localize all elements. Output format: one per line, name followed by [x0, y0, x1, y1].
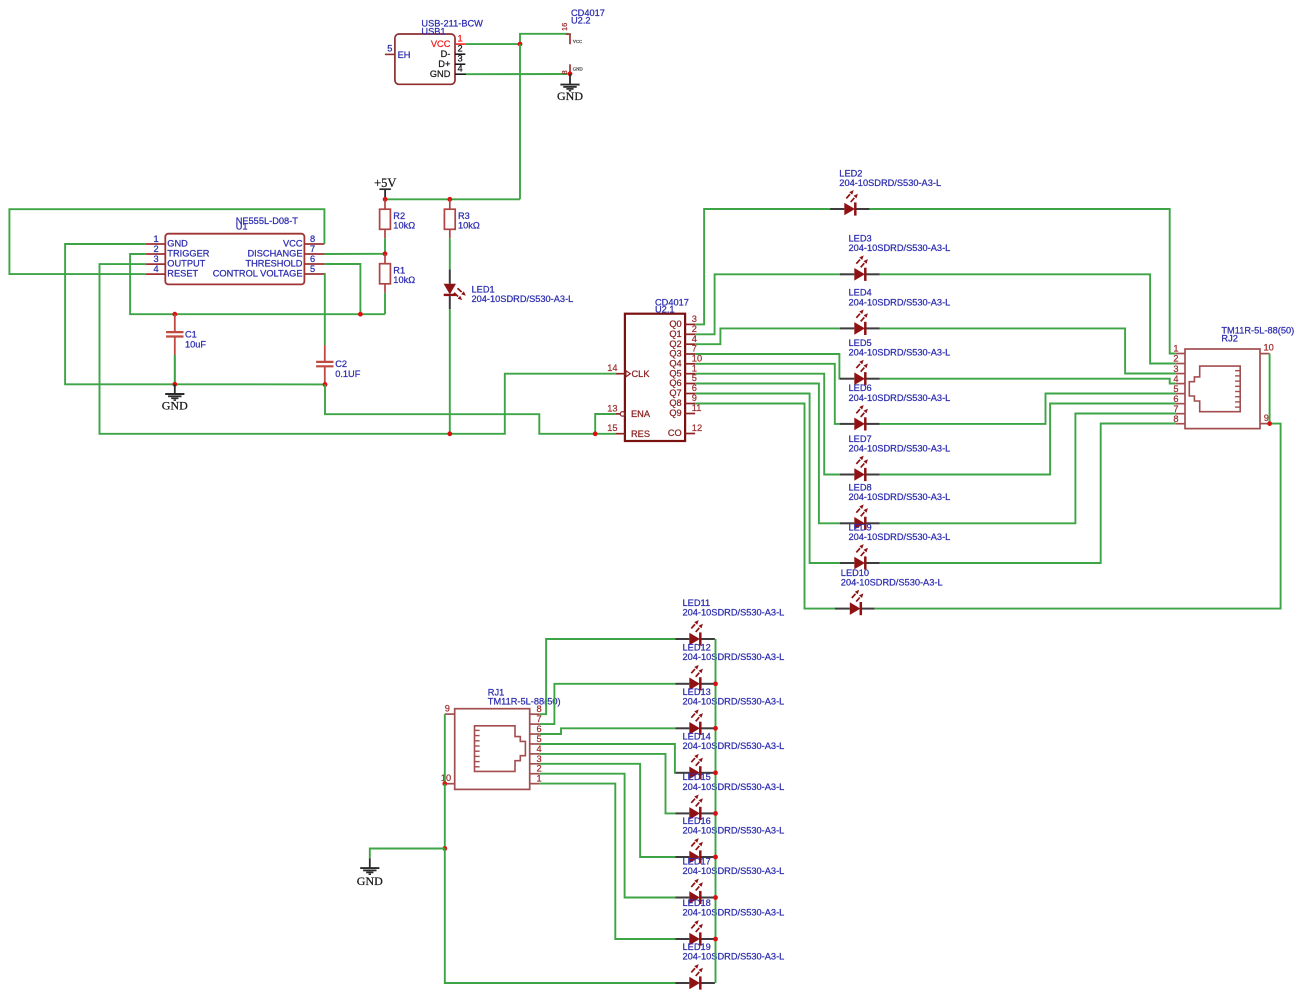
wire down to LED19 anode: [445, 849, 676, 984]
wire Q3 to LED5: [695, 354, 841, 379]
svg-text:OUTPUT: OUTPUT: [167, 259, 205, 269]
resistor R2 10k: [380, 199, 416, 238]
RJ2 pin 7: [1173, 404, 1185, 414]
svg-text:RJ2: RJ2: [1221, 333, 1237, 343]
svg-text:LED3: LED3: [849, 234, 872, 244]
svg-text:D-: D-: [441, 49, 451, 59]
wire TRIGGER pin2 to threshold rail: [130, 254, 385, 314]
svg-text:204-10SDRD/S530-A3-L: 204-10SDRD/S530-A3-L: [683, 697, 785, 707]
USB1 pin 1 VCC: [431, 34, 465, 49]
svg-text:U2.2: U2.2: [571, 16, 591, 26]
wire LED9 to RJ2 pin8: [880, 424, 1176, 564]
wire GND pin1 to ground rail: [65, 244, 325, 384]
RJ2 pin 9: [1260, 413, 1270, 424]
node bus junction LED13: [713, 726, 718, 731]
U1 pin 4 RESET: [146, 264, 199, 279]
RJ1 pin 8: [530, 704, 542, 714]
connector RJ1 TM11R-5L-88(50): [455, 688, 561, 790]
svg-text:LED11: LED11: [683, 598, 711, 608]
svg-text:10: 10: [441, 773, 451, 783]
wire +5V rail: [385, 198, 520, 200]
svg-text:16: 16: [560, 23, 569, 31]
svg-text:204-10SDRD/S530-A3-L: 204-10SDRD/S530-A3-L: [683, 907, 785, 917]
svg-text:RES: RES: [631, 429, 650, 439]
wire THRESHOLD pin6 down to rail: [324, 264, 360, 314]
svg-text:204-10SDRD/S530-A3-L: 204-10SDRD/S530-A3-L: [849, 348, 951, 358]
LED LED2 204-10SDRD/S530-A3-L: [830, 168, 941, 215]
node R3 top junction: [447, 197, 452, 202]
U2.1 pin 15 RES: [607, 423, 650, 439]
RJ2 pin 1: [1173, 344, 1185, 354]
svg-text:3: 3: [154, 254, 159, 264]
RJ1 pin 3: [530, 754, 542, 764]
svg-text:10kΩ: 10kΩ: [458, 221, 480, 231]
wire LED4 to RJ2 pin3: [880, 328, 1176, 373]
LED LED5 204-10SDRD/S530-A3-L: [840, 338, 950, 385]
svg-text:+5V: +5V: [374, 176, 396, 190]
U2.1 pin 1 Q5: [669, 363, 697, 378]
svg-text:Q3: Q3: [669, 349, 681, 359]
svg-text:THRESHOLD: THRESHOLD: [245, 259, 302, 269]
svg-text:LED17: LED17: [683, 856, 711, 866]
U1 pin 3 OUTPUT: [146, 254, 206, 269]
USB1 pin 5 EH: [385, 44, 411, 60]
svg-text:Q7: Q7: [669, 388, 681, 398]
svg-text:Q5: Q5: [669, 368, 681, 378]
svg-text:LED14: LED14: [683, 732, 711, 742]
RJ1 pin 1: [530, 774, 542, 784]
svg-text:204-10SDRD/S530-A3-L: 204-10SDRD/S530-A3-L: [849, 243, 951, 253]
U2.1 pin 9 Q8: [669, 393, 697, 408]
svg-text:11: 11: [692, 403, 702, 413]
svg-text:1: 1: [154, 234, 159, 244]
wire ground net to ENA and RES: [325, 385, 616, 434]
svg-text:LED1: LED1: [472, 284, 495, 294]
RJ2 pin 8: [1173, 414, 1185, 424]
svg-text:VCC: VCC: [283, 239, 303, 249]
RJ1 pin 7: [530, 714, 542, 724]
svg-text:LED18: LED18: [683, 898, 711, 908]
node bus junction LED12: [713, 681, 718, 686]
svg-text:204-10SDRD/S530-A3-L: 204-10SDRD/S530-A3-L: [841, 578, 943, 588]
wire OUTPUT pin3 to CLK: [100, 264, 616, 434]
svg-text:C2: C2: [335, 359, 347, 369]
wire ground tap to GND symbol: [370, 849, 445, 859]
svg-text:Q0: Q0: [669, 319, 681, 329]
LED LED13 204-10SDRD/S530-A3-L: [676, 687, 785, 735]
svg-text:6: 6: [310, 254, 315, 264]
node bus junction LED15: [713, 811, 718, 816]
power part U2.2 CD4017 pin 8 GND: [560, 64, 584, 74]
svg-text:4: 4: [537, 744, 542, 754]
svg-text:1: 1: [692, 363, 697, 373]
svg-text:U2.1: U2.1: [655, 304, 675, 314]
svg-text:GND: GND: [557, 89, 583, 103]
wire Q6 to LED8: [695, 384, 840, 524]
USB1 pin 2 D-: [441, 44, 466, 59]
svg-text:204-10SDRD/S530-A3-L: 204-10SDRD/S530-A3-L: [683, 652, 785, 662]
wire Q5 to LED7: [695, 374, 840, 475]
wire common cathode bus: [715, 639, 717, 983]
U2.1 pin 10 Q4: [669, 353, 702, 368]
svg-text:204-10SDRD/S530-A3-L: 204-10SDRD/S530-A3-L: [683, 825, 785, 835]
node C2 ground junction: [323, 382, 328, 387]
U2.1 pin 5 Q6: [669, 373, 697, 388]
svg-text:14: 14: [607, 363, 617, 373]
svg-text:Q9: Q9: [669, 408, 681, 418]
U2.1 pin 6 Q7: [669, 383, 697, 398]
svg-text:4: 4: [154, 264, 159, 274]
svg-text:USB1: USB1: [421, 27, 445, 37]
svg-text:8: 8: [537, 704, 542, 714]
svg-text:C1: C1: [185, 329, 197, 339]
wire RJ1 pin8 to LED11: [540, 639, 676, 714]
RJ2 pin 2: [1173, 354, 1185, 364]
svg-text:10kΩ: 10kΩ: [393, 275, 415, 285]
svg-text:TRIGGER: TRIGGER: [167, 249, 209, 259]
svg-text:LED15: LED15: [683, 772, 711, 782]
svg-text:204-10SDRD/S530-A3-L: 204-10SDRD/S530-A3-L: [683, 607, 785, 617]
svg-text:2: 2: [458, 44, 463, 54]
resistor R1 10k: [380, 254, 416, 293]
LED LED16 204-10SDRD/S530-A3-L: [676, 816, 785, 864]
connector USB1 USB-211-BCW: [395, 19, 483, 85]
wire Q7 to LED9: [695, 394, 840, 564]
svg-text:204-10SDRD/S530-A3-L: 204-10SDRD/S530-A3-L: [849, 492, 951, 502]
svg-text:1: 1: [458, 34, 463, 44]
svg-text:LED9: LED9: [849, 522, 872, 532]
svg-text:9: 9: [445, 704, 450, 714]
svg-text:4: 4: [1173, 374, 1178, 384]
U1 pin 2 TRIGGER: [146, 244, 210, 259]
wire LED3 to RJ2 pin2: [880, 274, 1176, 363]
svg-text:RESET: RESET: [167, 269, 198, 279]
LED LED4 204-10SDRD/S530-A3-L: [840, 288, 950, 335]
svg-text:7: 7: [1173, 404, 1178, 414]
LED LED18 204-10SDRD/S530-A3-L: [676, 898, 785, 946]
wire LED2 to RJ2 pin1: [870, 209, 1176, 354]
wire Q4 to LED6: [695, 364, 841, 424]
ground symbol GND (C1): [162, 384, 188, 412]
svg-text:204-10SDRD/S530-A3-L: 204-10SDRD/S530-A3-L: [683, 782, 785, 792]
wire R3 bottom to LED1: [449, 238, 451, 269]
wire CONTROL VOLTAGE pin5 down to C2: [323, 274, 325, 345]
RJ1 pin 5: [530, 734, 542, 744]
svg-text:LED7: LED7: [849, 434, 872, 444]
power flag +5V: [374, 176, 396, 199]
svg-text:GND: GND: [573, 66, 584, 71]
svg-text:U1: U1: [236, 221, 248, 231]
svg-text:GND: GND: [167, 239, 188, 249]
wire VCC pin8 loop to RESET pin4: [9, 209, 324, 274]
wire USB1 VCC to junction: [465, 43, 520, 45]
node USB GND junction: [568, 71, 573, 76]
LED LED19 204-10SDRD/S530-A3-L: [676, 942, 785, 990]
svg-text:CO: CO: [668, 428, 682, 438]
wire LED8 to RJ2 pin7: [880, 414, 1176, 524]
svg-text:Q4: Q4: [669, 359, 681, 369]
svg-text:2: 2: [537, 764, 542, 774]
wire Q2 to LED4: [695, 328, 840, 344]
U2.1 pin 13 ENA: [607, 403, 651, 419]
RJ2 pin 4: [1173, 374, 1185, 384]
LED LED9 204-10SDRD/S530-A3-L: [840, 522, 950, 569]
node DISCHARGE junction: [383, 251, 388, 256]
U1 pin 7 DISCHANGE: [248, 244, 325, 259]
node bus junction LED14: [713, 770, 718, 775]
svg-text:10: 10: [1264, 343, 1274, 353]
svg-text:5: 5: [1173, 384, 1178, 394]
svg-text:LED5: LED5: [849, 338, 872, 348]
svg-text:3: 3: [537, 754, 542, 764]
svg-text:R1: R1: [393, 266, 405, 276]
svg-text:4: 4: [692, 334, 697, 344]
svg-text:8: 8: [1173, 414, 1178, 424]
svg-text:LED6: LED6: [849, 383, 872, 393]
U2.1 pin 12 CO: [668, 423, 702, 438]
LED LED3 204-10SDRD/S530-A3-L: [840, 234, 950, 281]
RJ2 pin 6: [1173, 394, 1185, 404]
wire C1 bottom green: [174, 355, 176, 384]
svg-text:R2: R2: [393, 211, 405, 221]
RJ2 pin 10: [1260, 343, 1274, 354]
wire DISCHARGE pin7 to junction: [324, 253, 385, 255]
wire RJ1 pin6 to LED13: [540, 728, 676, 734]
RJ1 pin 9: [445, 704, 455, 715]
svg-text:3: 3: [1173, 364, 1178, 374]
svg-text:LED4: LED4: [849, 288, 872, 298]
svg-text:GND: GND: [162, 399, 188, 413]
wire R2 bottom to DISCHARGE junction: [384, 238, 386, 254]
svg-text:10kΩ: 10kΩ: [393, 221, 415, 231]
wire RJ2 pin10 to pin9: [1269, 354, 1271, 424]
wire LED5 to RJ2 pin4: [880, 379, 1176, 384]
LED LED15 204-10SDRD/S530-A3-L: [676, 772, 785, 820]
svg-text:204-10SDRD/S530-A3-L: 204-10SDRD/S530-A3-L: [839, 178, 941, 188]
svg-text:Q8: Q8: [669, 398, 681, 408]
wire LED10 to RJ2 pins 9/10: [875, 424, 1281, 609]
LED LED7 204-10SDRD/S530-A3-L: [840, 434, 950, 481]
svg-text:5: 5: [387, 44, 392, 54]
svg-text:3: 3: [692, 314, 697, 324]
svg-text:DISCHANGE: DISCHANGE: [248, 249, 303, 259]
LED LED12 204-10SDRD/S530-A3-L: [676, 643, 785, 691]
svg-text:VCC: VCC: [431, 39, 451, 49]
wire junction down to +5V rail: [519, 44, 521, 199]
svg-text:7: 7: [310, 244, 315, 254]
svg-text:6: 6: [692, 383, 697, 393]
RJ1 pin 4: [530, 744, 542, 754]
svg-text:9: 9: [692, 393, 697, 403]
U2.1 pin 11 Q9: [669, 403, 701, 418]
U2.1 pin 2 Q1: [669, 324, 697, 339]
node C1 ground junction: [172, 382, 177, 387]
node bus junction LED16: [713, 855, 718, 860]
svg-text:0.1UF: 0.1UF: [335, 369, 361, 379]
svg-text:2: 2: [154, 244, 159, 254]
node VCC junction: [518, 42, 523, 47]
wire RJ1 pin2 to LED17: [540, 774, 676, 898]
svg-text:4: 4: [458, 64, 463, 74]
svg-text:204-10SDRD/S530-A3-L: 204-10SDRD/S530-A3-L: [849, 297, 951, 307]
U2.1 pin 3 Q0: [669, 314, 697, 329]
svg-text:204-10SDRD/S530-A3-L: 204-10SDRD/S530-A3-L: [683, 866, 785, 876]
svg-text:CONTROL VOLTAGE: CONTROL VOLTAGE: [213, 269, 303, 279]
svg-text:LED2: LED2: [839, 168, 862, 178]
svg-text:LED19: LED19: [683, 942, 711, 952]
U1 pin 6 THRESHOLD: [245, 254, 324, 269]
LED LED14 204-10SDRD/S530-A3-L: [676, 732, 785, 780]
RJ1 pin 10: [441, 773, 455, 784]
svg-text:12: 12: [692, 423, 702, 433]
IC U2.1 CD4017: [625, 298, 689, 442]
svg-text:204-10SDRD/S530-A3-L: 204-10SDRD/S530-A3-L: [683, 741, 785, 751]
svg-text:D+: D+: [438, 59, 450, 69]
wire junction up to U2.2 pin16: [520, 34, 569, 44]
node C1 top junction: [172, 312, 177, 317]
svg-text:Q1: Q1: [669, 329, 681, 339]
wire RJ1 pin9 to pin10: [444, 714, 446, 784]
wire RJ1 pin4 to LED15: [540, 754, 676, 814]
U1 pin 5 CONTROL VOLTAGE: [213, 264, 325, 279]
U2.1 pin 4 Q2: [669, 334, 697, 349]
U2.1 pin 7 Q3: [669, 344, 697, 359]
RJ2 pin 5: [1173, 384, 1185, 394]
svg-text:204-10SDRD/S530-A3-L: 204-10SDRD/S530-A3-L: [472, 294, 574, 304]
svg-text:LED13: LED13: [683, 687, 711, 697]
ground symbol GND (bottom): [357, 859, 383, 888]
svg-text:3: 3: [458, 54, 463, 64]
wire LED6 to RJ2 pin5: [880, 394, 1176, 424]
power part U2.2 CD4017 pin 16 VCC: [560, 8, 605, 44]
LED LED8 204-10SDRD/S530-A3-L: [840, 483, 950, 530]
svg-text:204-10SDRD/S530-A3-L: 204-10SDRD/S530-A3-L: [849, 532, 951, 542]
svg-text:1: 1: [537, 774, 542, 784]
wire RJ1 pin7 to LED12: [540, 684, 676, 724]
svg-text:6: 6: [537, 724, 542, 734]
wire RJ1 pin1 to LED18: [540, 784, 676, 939]
svg-text:VCC: VCC: [573, 39, 582, 44]
svg-text:10uF: 10uF: [185, 339, 206, 349]
node RJ1 pin10 junction: [442, 781, 447, 786]
svg-text:7: 7: [537, 714, 542, 724]
wire USB1 GND to U2.2 pin 8: [466, 73, 568, 75]
svg-text:204-10SDRD/S530-A3-L: 204-10SDRD/S530-A3-L: [849, 393, 951, 403]
USB1 pin 4 GND: [430, 64, 466, 79]
node LED1 output junction: [447, 431, 452, 436]
svg-text:6: 6: [1173, 394, 1178, 404]
RJ2 pin 3: [1173, 364, 1185, 374]
svg-text:LED8: LED8: [849, 483, 872, 493]
svg-text:1: 1: [1173, 344, 1178, 354]
U1 pin 1 GND: [146, 234, 188, 249]
svg-text:204-10SDRD/S530-A3-L: 204-10SDRD/S530-A3-L: [849, 443, 951, 453]
svg-text:LED12: LED12: [683, 643, 711, 653]
svg-text:204-10SDRD/S530-A3-L: 204-10SDRD/S530-A3-L: [683, 951, 785, 961]
svg-text:5: 5: [310, 264, 315, 274]
LED LED11 204-10SDRD/S530-A3-L: [676, 598, 785, 646]
node RJ2 pin9 junction: [1267, 421, 1272, 426]
svg-text:EH: EH: [398, 50, 411, 60]
wire Q1 to LED3: [695, 274, 840, 334]
node bus junction LED18: [713, 937, 718, 942]
RJ1 pin 6: [530, 724, 542, 734]
svg-text:LED10: LED10: [841, 568, 869, 578]
wire pin10 down to ground tap: [444, 784, 446, 849]
node ENA/RES junction: [593, 431, 598, 436]
capacitor C1 10uF: [166, 314, 206, 384]
U1 pin 8 VCC: [283, 234, 324, 249]
wire LED1 cathode down to output rail: [449, 309, 451, 434]
wire Q8 to LED10: [695, 404, 836, 609]
IC U1 NE555L-D08-T: [165, 216, 304, 285]
resistor R3 10k: [444, 199, 480, 238]
USB1 pin 3 D+: [438, 54, 465, 69]
svg-text:9: 9: [1264, 413, 1269, 423]
wire ENA branch: [595, 414, 616, 434]
wire R1 bottom to threshold rail: [384, 293, 386, 314]
wire LED7 to RJ2 pin6: [880, 404, 1176, 475]
svg-text:GND: GND: [357, 874, 383, 888]
LED LED1 204-10SDRD/S530-A3-L (vertical): [444, 269, 574, 309]
svg-text:R3: R3: [458, 211, 470, 221]
svg-text:13: 13: [607, 403, 617, 413]
wire RJ1 pin3 to LED16: [540, 764, 676, 857]
wire Q0 to LED2: [695, 209, 831, 324]
wire RJ1 pin5 to LED14: [540, 744, 676, 773]
RJ1 pin 2: [530, 764, 542, 774]
svg-text:8: 8: [560, 70, 569, 74]
svg-text:2: 2: [692, 324, 697, 334]
LED LED10 204-10SDRD/S530-A3-L: [835, 568, 943, 615]
svg-text:GND: GND: [430, 69, 451, 79]
ground symbol GND (top): [557, 74, 583, 103]
svg-text:CLK: CLK: [632, 369, 651, 379]
svg-text:8: 8: [310, 234, 315, 244]
connector RJ2 TM11R-5L-88(50): [1185, 326, 1294, 429]
LED LED17 204-10SDRD/S530-A3-L: [676, 856, 785, 904]
svg-text:Q6: Q6: [669, 378, 681, 388]
svg-text:5: 5: [537, 734, 542, 744]
node ground tap junction: [442, 846, 447, 851]
svg-text:2: 2: [1173, 354, 1178, 364]
node bus junction LED17: [713, 895, 718, 900]
capacitor C2 0.1UF: [316, 345, 361, 385]
LED LED6 204-10SDRD/S530-A3-L: [840, 383, 950, 430]
svg-text:LED16: LED16: [683, 816, 711, 826]
node +5V junction: [383, 197, 388, 202]
svg-text:Q2: Q2: [669, 339, 681, 349]
node THRESHOLD junction: [358, 312, 363, 317]
U2.1 pin 14 CLK: [607, 363, 650, 379]
svg-text:ENA: ENA: [631, 409, 651, 419]
svg-text:TM11R-5L-88(50): TM11R-5L-88(50): [488, 697, 561, 707]
svg-text:15: 15: [607, 423, 617, 433]
